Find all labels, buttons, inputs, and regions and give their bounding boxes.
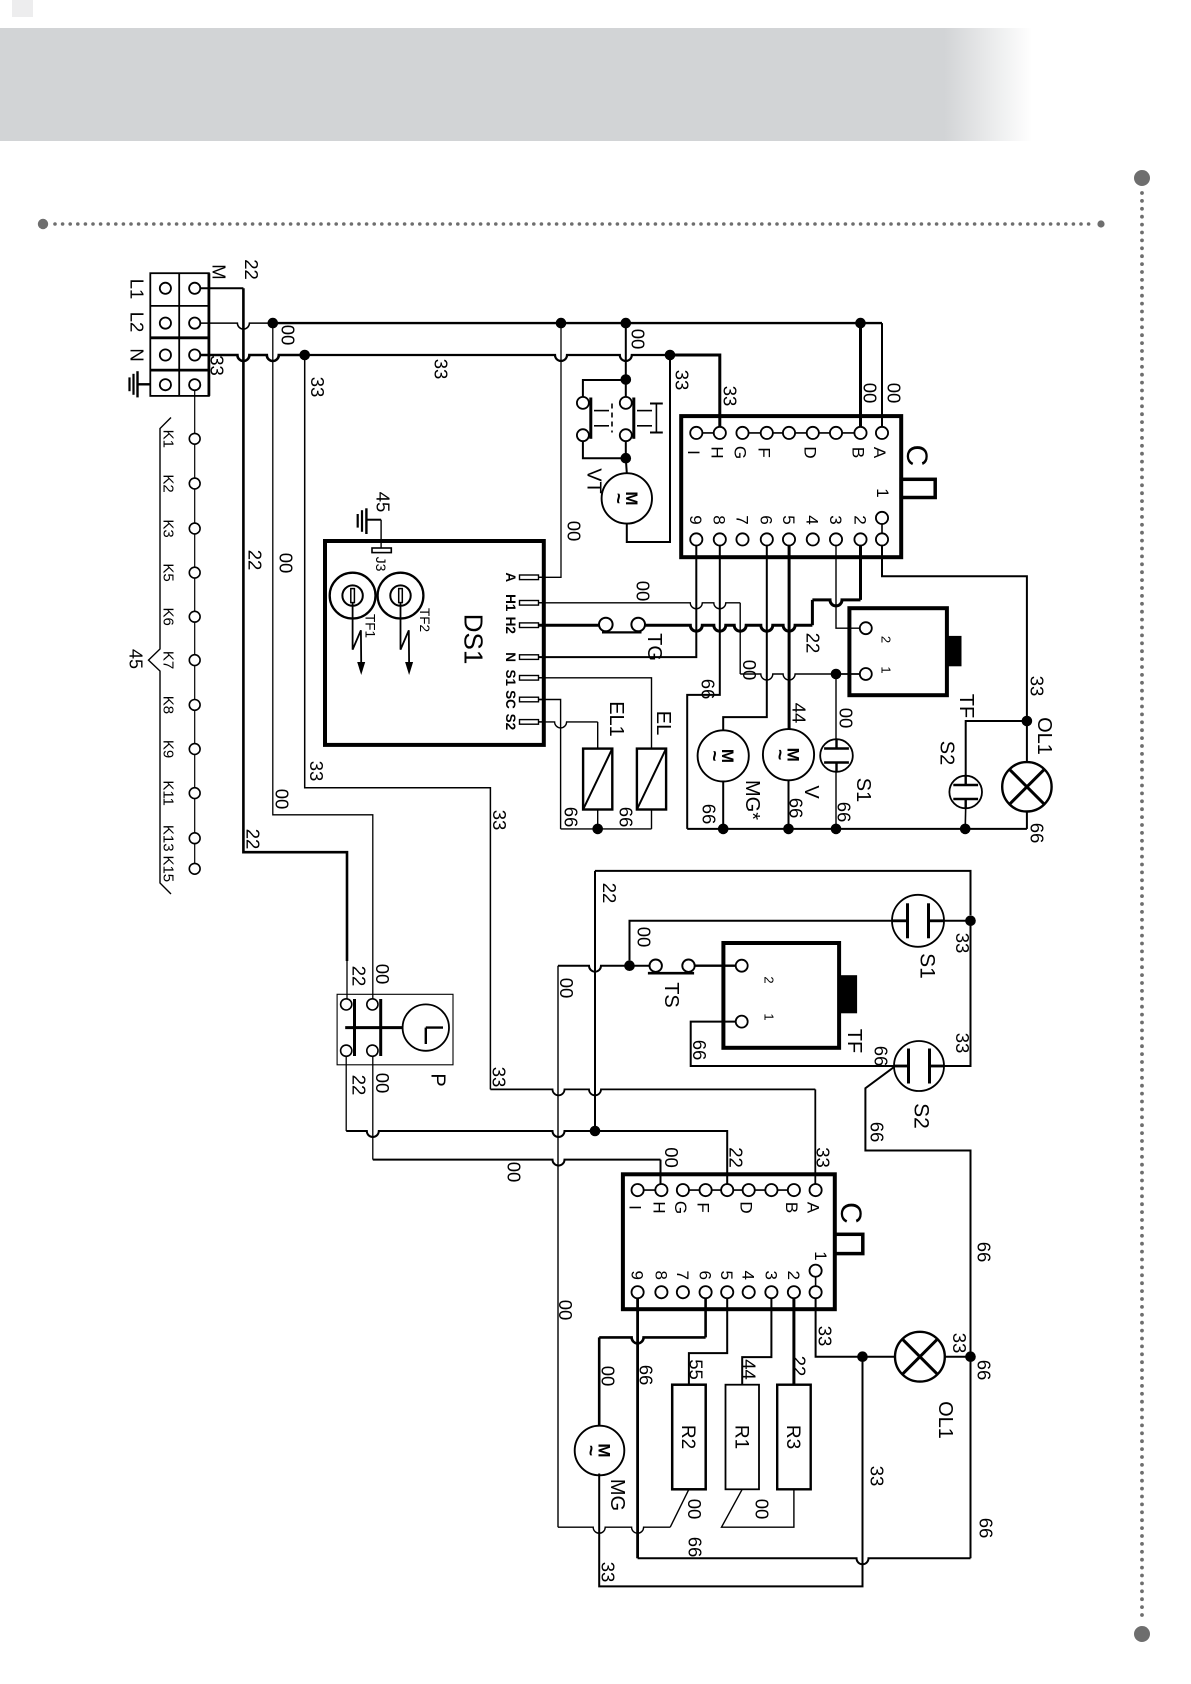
connector C2 bottom pin 7 (788, 1286, 800, 1298)
svg-text:S2: S2 (935, 741, 957, 765)
svg-text:00: 00 (661, 1147, 682, 1168)
connector C2 top pin 1 (655, 1184, 667, 1196)
svg-text:B: B (782, 1202, 801, 1213)
wire VT feed (625, 323, 627, 373)
connector C1 bottom pin 6 (830, 533, 842, 545)
cam TF2 (378, 573, 424, 619)
node 66 MG* (718, 824, 729, 835)
DS1 pin SC (520, 697, 539, 702)
svg-text:66: 66 (635, 1365, 656, 1386)
wire 22 TG to pin2 (645, 625, 813, 631)
contact K13 (189, 833, 200, 844)
node 33-d (665, 350, 676, 361)
svg-text:MG: MG (606, 1479, 628, 1511)
node 33 S1-2 (965, 916, 976, 927)
svg-text:00: 00 (751, 1499, 772, 1520)
DS1 pin S2 (520, 720, 539, 725)
wire pin5 to R2 (689, 1298, 727, 1384)
contact K1 (189, 433, 200, 444)
svg-text:1: 1 (878, 666, 893, 673)
svg-text:K11: K11 (160, 780, 177, 806)
wire V return (788, 780, 790, 829)
svg-text:22: 22 (348, 966, 369, 987)
svg-text:00: 00 (684, 1499, 705, 1520)
resistor R2 (672, 1385, 706, 1490)
wire TG thick (539, 624, 600, 627)
connector C1 key tab (901, 479, 935, 497)
thermostat TF box (849, 608, 947, 695)
svg-text:G: G (730, 446, 749, 459)
horizontal dotted rule (38, 219, 1105, 229)
motor V (763, 729, 814, 780)
wire 66 S2 down (865, 1067, 970, 1558)
svg-text:H2: H2 (503, 617, 518, 634)
svg-text:7: 7 (732, 515, 751, 524)
svg-text:33: 33 (1026, 676, 1047, 697)
connector C1 top pin 1 (714, 427, 726, 439)
connector C1 top pin 5 (807, 427, 819, 439)
connector C1 top pin 2 (736, 427, 748, 439)
connector C2 top pin 6 (765, 1184, 777, 1196)
svg-text:66: 66 (560, 807, 581, 828)
svg-text:66: 66 (785, 798, 806, 819)
wire pin5 to V (788, 546, 791, 730)
P contact top-left (341, 999, 352, 1010)
svg-text:66: 66 (684, 1537, 705, 1558)
wire R2 bottom to 00 (670, 1489, 689, 1527)
DS1 pin H2 (520, 623, 539, 628)
wire 33 from N (200, 355, 304, 361)
wire R1 R3 bottom (722, 1489, 794, 1527)
svg-text:22: 22 (241, 259, 262, 280)
svg-text:33: 33 (812, 1147, 833, 1168)
svg-text:00: 00 (835, 708, 856, 729)
svg-text:K7: K7 (160, 651, 177, 669)
pressure switch S1-2 (892, 895, 944, 947)
wire pin6 to MG (599, 1337, 705, 1343)
svg-text:33: 33 (866, 1466, 887, 1487)
svg-text:R1: R1 (730, 1425, 751, 1449)
vertical dotted rule (1134, 170, 1150, 1642)
svg-text:S2: S2 (909, 1103, 932, 1129)
svg-text:EL1: EL1 (605, 701, 627, 737)
wire DS1-SC down (539, 700, 561, 829)
svg-text:K5: K5 (160, 563, 177, 581)
svg-text:5: 5 (779, 515, 798, 524)
svg-text:2: 2 (761, 976, 776, 983)
wire 00 to TF1 (740, 674, 860, 680)
connector C2 key tab (835, 1234, 863, 1253)
timer DS1 box (325, 541, 544, 745)
wire 22 from L1 (200, 287, 243, 289)
VT contact bars (589, 398, 592, 439)
svg-text:8: 8 (710, 515, 729, 524)
wire pin3 to R1 (742, 1298, 771, 1384)
svg-text:H: H (708, 446, 727, 458)
svg-text:45: 45 (372, 492, 393, 513)
connector C2 top pin 4 (721, 1184, 733, 1196)
pressure switch S2-2 (894, 1041, 944, 1091)
wire 00 to pin A (881, 323, 883, 427)
wire pin3 to TF (836, 546, 860, 629)
pressure switch S2 (949, 776, 982, 809)
TF pin 2 (860, 622, 872, 634)
motor VT (602, 473, 652, 523)
P contact bottom-left (341, 1045, 352, 1056)
wire 33 bus to H (670, 355, 720, 427)
connector C1 bottom pin 0 (690, 533, 702, 545)
svg-text:EL: EL (652, 711, 674, 735)
wire 33 bus (305, 355, 669, 361)
connector C2 pin 1 circle (810, 1265, 822, 1277)
TF pin 1 (860, 668, 872, 680)
connector C2 bottom pin 1 (655, 1286, 667, 1298)
wire pin1b to OL1-2 (816, 1298, 863, 1356)
wire 00 riser to P (273, 323, 373, 999)
node 66 V (783, 824, 794, 835)
wire pin2 to R3 (792, 1298, 795, 1384)
wire ground to K ladder (194, 390, 196, 864)
svg-text:00: 00 (271, 789, 292, 810)
connector C1 pin links (696, 432, 720, 434)
svg-text:P: P (426, 1073, 448, 1086)
wire to S2 (966, 721, 1027, 777)
svg-text:S2: S2 (503, 714, 518, 731)
node 33 OL1 (1022, 716, 1033, 727)
svg-text:1: 1 (873, 488, 892, 497)
wire DS1-N to pin9 (539, 546, 697, 658)
svg-text:I: I (626, 1205, 645, 1210)
svg-text:9: 9 (628, 1270, 647, 1279)
svg-text:1: 1 (761, 1013, 776, 1020)
svg-text:00: 00 (627, 329, 648, 350)
svg-text:OL1: OL1 (934, 1401, 956, 1439)
wire DS1-S2 to EL1 (539, 722, 598, 728)
svg-text:1: 1 (811, 1251, 830, 1260)
svg-text:K6: K6 (160, 608, 177, 626)
wire S1-2 right (944, 920, 971, 922)
contact VT bottom-left (577, 429, 589, 441)
svg-text:22: 22 (244, 550, 265, 571)
connector C2 top pin 0 (632, 1184, 644, 1196)
svg-text:55: 55 (685, 1359, 706, 1380)
node 66 S1 (831, 824, 842, 835)
wire VT motor return (627, 355, 670, 542)
svg-text:22: 22 (802, 633, 823, 654)
connector C2 bottom pin 2 (677, 1286, 689, 1298)
contact K15 (189, 863, 200, 874)
svg-text:MG*: MG* (741, 780, 763, 820)
svg-text:G: G (671, 1201, 690, 1214)
wire 00 from P (372, 1056, 374, 1159)
svg-text:44: 44 (788, 703, 809, 724)
wire S1-2 left (630, 921, 893, 961)
wire TS riser (557, 966, 559, 1527)
wire OL1 return (1026, 812, 1028, 829)
svg-text:33: 33 (719, 386, 740, 407)
contact K3 (189, 523, 200, 534)
cam TF1 arrow (353, 603, 362, 663)
svg-text:6: 6 (696, 1270, 715, 1279)
svg-text:00: 00 (372, 964, 393, 985)
TF2 pin 1 (736, 1016, 748, 1028)
svg-text:00: 00 (556, 978, 577, 999)
contact K7 (189, 655, 200, 666)
wire pin8 to 66 bus (687, 546, 720, 829)
wire 22 from P (345, 1056, 347, 1131)
node 00-b (621, 318, 632, 329)
connector C2 top pin 2 (677, 1184, 689, 1196)
lamp OL1-2 (895, 1332, 945, 1382)
wire S1 return (835, 771, 837, 829)
ground symbol at terminal block (128, 377, 130, 391)
TF2 pin 2 (736, 960, 748, 972)
svg-text:M: M (208, 264, 229, 279)
connector C1 box (681, 416, 901, 557)
node VT top (621, 374, 632, 385)
svg-text:N: N (503, 652, 518, 662)
svg-text:K8: K8 (160, 696, 177, 714)
svg-text:N: N (126, 348, 147, 361)
svg-text:00: 00 (277, 325, 298, 346)
contact K5 (189, 567, 200, 578)
connector C1 top pin 0 (690, 427, 702, 439)
svg-text:SC: SC (503, 690, 518, 709)
VT linkage (594, 410, 609, 412)
DS1 pin N (520, 655, 539, 660)
svg-text:C: C (900, 445, 933, 467)
connector C1 pin 1 circle (876, 512, 888, 524)
wire 00 H1 run (539, 603, 741, 609)
wire 22 riser (243, 288, 347, 961)
svg-text:TF1: TF1 (363, 614, 378, 638)
connector C2 bottom pin 0 (632, 1286, 644, 1298)
contact VT bottom-right (620, 429, 632, 441)
svg-text:66: 66 (973, 1360, 994, 1381)
node 66 OL1-2 (965, 1351, 976, 1362)
wire MG to 33 (599, 1357, 862, 1587)
pressostat P box (337, 994, 453, 1065)
wire 66 left segment (561, 828, 652, 830)
connector C1 bottom pin 5 (807, 533, 819, 545)
svg-text:F: F (755, 447, 774, 457)
connector C2 bottom pin 6 (765, 1286, 777, 1298)
svg-text:33: 33 (307, 377, 328, 398)
svg-text:C: C (834, 1202, 867, 1224)
thermostat TF2 box (723, 943, 839, 1048)
svg-text:22: 22 (599, 883, 620, 904)
svg-text:D: D (737, 1201, 756, 1213)
contact K2 (189, 478, 200, 489)
svg-text:R2: R2 (677, 1425, 698, 1449)
svg-text:L2: L2 (126, 312, 147, 333)
svg-text:TF2: TF2 (417, 608, 432, 632)
contact K9 (189, 744, 200, 755)
P actuator (345, 1026, 402, 1029)
svg-text:S1: S1 (915, 953, 938, 979)
svg-text:00: 00 (275, 553, 296, 574)
node 22 (590, 1126, 601, 1137)
svg-text:66: 66 (866, 1122, 887, 1143)
svg-text:00: 00 (883, 383, 904, 404)
svg-text:00: 00 (632, 581, 653, 602)
contact K6 (189, 611, 200, 622)
header notch (12, 0, 33, 17)
wire 00 bus (273, 322, 882, 324)
ground symbol 45 (357, 514, 359, 528)
svg-text:22: 22 (348, 1075, 369, 1096)
svg-text:2: 2 (850, 515, 869, 524)
DS1 pin S1 (520, 676, 539, 681)
node 00-c (855, 318, 866, 329)
node 33-N (299, 350, 310, 361)
wire to VT motor (626, 458, 627, 473)
wire TF2-1 to S2 (691, 1022, 894, 1066)
fuse J3 (380, 520, 382, 548)
wire MG* return (722, 782, 724, 829)
svg-text:J3: J3 (373, 557, 389, 572)
svg-text:OL1: OL1 (1033, 717, 1055, 755)
svg-text:00: 00 (859, 383, 880, 404)
connector C2 box (623, 1174, 835, 1309)
svg-text:DS1: DS1 (459, 614, 489, 665)
svg-text:7: 7 (673, 1270, 692, 1279)
wire OL1-2 left (863, 1356, 896, 1358)
svg-text:33: 33 (949, 1333, 970, 1354)
svg-text:00: 00 (597, 1366, 618, 1387)
svg-text:33: 33 (306, 761, 327, 782)
wire 00 to pin B (859, 323, 862, 427)
svg-text:K3: K3 (160, 519, 177, 537)
connector C1 bottom pin 2 (736, 533, 748, 545)
svg-text:~: ~ (607, 493, 628, 504)
svg-text:00: 00 (633, 927, 654, 948)
svg-text:33: 33 (952, 1033, 973, 1054)
svg-text:K15: K15 (160, 855, 177, 882)
connector C2 bottom pin 3 (700, 1286, 712, 1298)
svg-text:66: 66 (615, 807, 636, 828)
thermostat TS (558, 966, 650, 972)
lamp OL1 (1002, 762, 1051, 811)
connector C1 top pin 6 (830, 427, 842, 439)
DS1 pin A (520, 575, 539, 580)
connector C1 top pin 3 (761, 427, 773, 439)
svg-text:8: 8 (651, 1270, 670, 1279)
connector C2 bottom pin 4 (721, 1286, 733, 1298)
svg-text:S1: S1 (852, 778, 874, 802)
connector C1 bottom pin 4 (783, 533, 795, 545)
node 33 OL1-2 (857, 1351, 868, 1362)
svg-text:3: 3 (761, 1270, 780, 1279)
svg-text:A: A (804, 1202, 823, 1214)
P diaphragm (403, 1004, 449, 1050)
motor MG (575, 1426, 625, 1476)
node 66 S2 (960, 824, 971, 835)
P contact bars (353, 999, 356, 1056)
wire OL1-2 right (945, 1356, 971, 1358)
wire DS1-A to 00 (539, 323, 562, 577)
connector C1 top pin 4 (783, 427, 795, 439)
node 00 TS (624, 960, 635, 971)
svg-text:H1: H1 (503, 594, 518, 612)
svg-text:66: 66 (689, 1040, 710, 1061)
wire 22 top run (595, 871, 971, 915)
svg-text:~: ~ (703, 750, 724, 761)
svg-text:6: 6 (757, 515, 776, 524)
svg-text:D: D (801, 446, 820, 458)
svg-text:TF: TF (955, 694, 977, 718)
wire S2 return (964, 808, 967, 829)
wire 22 riser to S1-2 (594, 871, 596, 1131)
wire VT bottom (583, 441, 626, 458)
svg-text:00: 00 (372, 1073, 393, 1094)
P contact top-right (367, 999, 378, 1010)
svg-text:33: 33 (597, 1562, 618, 1583)
connector C1 bottom pin 1 (714, 533, 726, 545)
node 66 EL1 (592, 824, 603, 835)
svg-text:L1: L1 (126, 279, 147, 300)
lamp EL1 (583, 749, 612, 810)
svg-text:B: B (848, 447, 867, 458)
contact K8 (189, 700, 200, 711)
svg-text:A: A (870, 447, 889, 459)
resistor R3 (777, 1385, 811, 1490)
wire pin6 to MG* (723, 546, 767, 731)
wire 00 to S1 (835, 674, 837, 740)
lamp EL (637, 749, 666, 810)
svg-text:33: 33 (814, 1326, 835, 1347)
svg-text:K1: K1 (160, 430, 177, 448)
svg-text:66: 66 (973, 1242, 994, 1263)
svg-text:~: ~ (769, 749, 790, 760)
node 00-a (556, 318, 567, 329)
svg-text:3: 3 (826, 515, 845, 524)
svg-text:45: 45 (126, 649, 146, 669)
wire DS1-S1 to EL (539, 678, 652, 749)
svg-text:5: 5 (717, 1270, 736, 1279)
contact VT top-left (577, 397, 589, 409)
cam TF1 (330, 573, 376, 619)
svg-text:22: 22 (725, 1147, 746, 1168)
svg-text:2: 2 (784, 1270, 803, 1279)
svg-text:H: H (649, 1201, 668, 1213)
svg-text:00: 00 (739, 660, 760, 681)
svg-text:66: 66 (698, 804, 719, 825)
svg-text:00: 00 (563, 521, 584, 542)
svg-text:9: 9 (686, 515, 705, 524)
fuse TG (599, 618, 613, 632)
node VT bottom (621, 453, 632, 464)
svg-text:33: 33 (488, 1067, 509, 1088)
wire TF1 to node (842, 673, 860, 675)
DS1 pin H1 (520, 601, 539, 606)
resistor R1 (726, 1385, 760, 1490)
cam TF2 arrow (401, 603, 410, 663)
svg-text:2: 2 (878, 636, 893, 643)
connector C1 bottom pin 8 (876, 533, 888, 545)
contact K11 (189, 788, 200, 799)
svg-text:00: 00 (555, 1300, 576, 1321)
svg-text:66: 66 (870, 1046, 891, 1067)
svg-text:66: 66 (697, 679, 718, 700)
pressure switch S1 (820, 739, 853, 772)
svg-text:33: 33 (489, 810, 510, 831)
svg-text:TF: TF (843, 1029, 865, 1053)
node 00 at S1 (831, 669, 842, 680)
svg-text:K9: K9 (160, 740, 177, 758)
connector C2 top pin 7 (788, 1184, 800, 1196)
svg-text:S1: S1 (503, 670, 518, 687)
